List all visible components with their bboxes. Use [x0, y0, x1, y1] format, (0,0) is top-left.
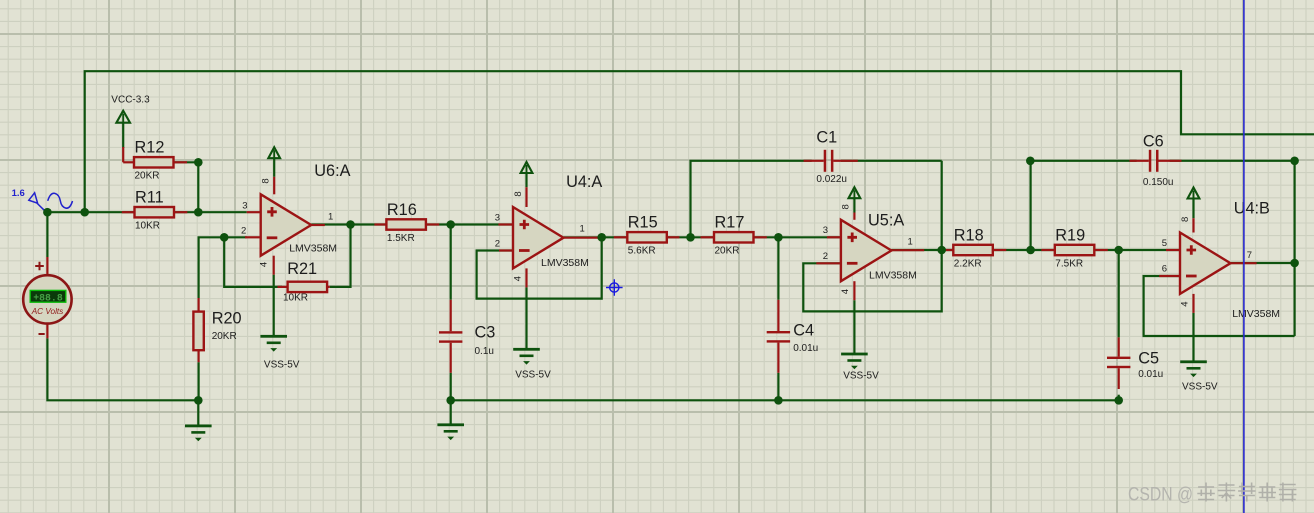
- svg-text:R18: R18: [954, 226, 984, 244]
- svg-text:5.6KR: 5.6KR: [628, 246, 656, 257]
- junction node U5 out: [937, 246, 946, 255]
- wire U5 right riser: [941, 161, 943, 250]
- power VSS-5V U4A pin4: [513, 287, 551, 380]
- wire C4 top: [777, 237, 779, 299]
- resistor R20: [193, 298, 241, 400]
- wire source row: [47, 211, 246, 213]
- op-amp U4:B: [1159, 199, 1280, 320]
- wire C6 row: [1030, 160, 1136, 162]
- svg-text:8: 8: [513, 191, 524, 196]
- sheet border line: [1243, 0, 1245, 513]
- svg-text:4: 4: [512, 276, 523, 281]
- junction node C6 left: [1026, 157, 1035, 166]
- junction node U4A out: [597, 233, 606, 242]
- svg-text:AC Volts: AC Volts: [31, 307, 64, 316]
- power VSS-5V U6 pin4: [260, 275, 299, 371]
- wire bottom rail: [451, 399, 1119, 401]
- junction node C5 bottom: [1114, 396, 1123, 405]
- svg-text:1: 1: [908, 237, 913, 248]
- junction node rail riser: [80, 208, 89, 217]
- svg-text:1: 1: [580, 224, 585, 235]
- wire R21 to out riser: [330, 225, 351, 287]
- wire U4A feedback: [477, 237, 602, 298]
- svg-text:3: 3: [823, 225, 828, 236]
- svg-text:5: 5: [1162, 238, 1167, 249]
- svg-text:VSS-5V: VSS-5V: [515, 369, 551, 380]
- svg-text:LMV358M: LMV358M: [869, 270, 917, 282]
- junction node gnd C3: [446, 396, 455, 405]
- svg-text:C6: C6: [1143, 132, 1164, 150]
- op-amp U6:A: [241, 162, 351, 275]
- svg-text:1.5KR: 1.5KR: [387, 233, 415, 244]
- ground below R20: [185, 400, 212, 441]
- junction node R12 out: [194, 158, 203, 167]
- svg-text:7.5KR: 7.5KR: [1055, 258, 1083, 269]
- wire C1 left riser: [691, 161, 812, 238]
- svg-text:10KR: 10KR: [135, 221, 160, 232]
- wire C5 bottom: [1118, 395, 1120, 401]
- svg-text:0.01u: 0.01u: [1138, 369, 1163, 380]
- junction node gnd left: [194, 396, 203, 405]
- svg-text:VCC-3.3: VCC-3.3: [111, 94, 150, 105]
- wire source top: [46, 212, 48, 257]
- origin marker: [606, 279, 623, 296]
- svg-text:LMV358M: LMV358M: [1232, 308, 1280, 320]
- resistor R19: [1041, 226, 1108, 269]
- svg-text:U4:B: U4:B: [1234, 199, 1270, 217]
- power VCC-3.3 terminal: [111, 94, 150, 148]
- svg-text:CSDN @: CSDN @: [1128, 483, 1193, 505]
- svg-text:VSS-5V: VSS-5V: [843, 371, 879, 382]
- resistor R21: [278, 260, 330, 303]
- svg-text:C4: C4: [793, 322, 814, 340]
- svg-text:+88.8: +88.8: [33, 292, 63, 303]
- wire U6 pin2 node: [199, 237, 247, 298]
- svg-text:1.6: 1.6: [12, 188, 25, 199]
- junction node R17 out: [774, 233, 783, 242]
- wire source bottom: [47, 338, 198, 400]
- wire C4 bottom: [777, 373, 779, 401]
- svg-text:R20: R20: [212, 310, 242, 328]
- junction node R15-R17: [686, 233, 695, 242]
- svg-text:2: 2: [823, 251, 828, 262]
- svg-text:4: 4: [259, 262, 270, 267]
- wire C6 right: [1170, 160, 1295, 162]
- op-amp U5:A: [816, 204, 924, 300]
- svg-text:VSS-5V: VSS-5V: [1182, 382, 1218, 393]
- svg-text:C3: C3: [475, 323, 496, 341]
- svg-text:R19: R19: [1055, 226, 1085, 244]
- wire C5 riser: [1118, 250, 1120, 337]
- wire C3 bottom: [450, 373, 452, 401]
- svg-text:U5:A: U5:A: [868, 211, 904, 229]
- wire U6 pin2 down to R21: [224, 237, 282, 287]
- svg-text:R17: R17: [715, 214, 745, 232]
- watermark CSDN: [1128, 483, 1296, 506]
- AC voltage source V1: [23, 257, 71, 338]
- svg-text:1: 1: [328, 212, 333, 223]
- junction node U4B out: [1290, 259, 1299, 268]
- op-amp U4:A: [495, 173, 603, 287]
- power VCC U4A pin8: [521, 162, 533, 187]
- wire U6 out to R16: [311, 223, 513, 225]
- wire U5 feedback: [803, 250, 941, 311]
- capacitor C5: [1107, 337, 1163, 389]
- svg-text:2: 2: [241, 225, 246, 236]
- wire C1 right to riser: [841, 160, 942, 162]
- power VCC U4B pin8: [1188, 188, 1200, 219]
- wire U4A out row: [564, 236, 841, 238]
- junction node gnd C4: [774, 396, 783, 405]
- svg-text:U6:A: U6:A: [314, 162, 350, 180]
- wire top rail: [85, 71, 1314, 212]
- svg-text:8: 8: [261, 178, 272, 183]
- svg-text:3: 3: [495, 212, 500, 223]
- svg-text:U4:A: U4:A: [566, 173, 602, 191]
- generator annotation 1.6 sine: [12, 188, 73, 211]
- svg-text:R21: R21: [287, 260, 317, 278]
- resistor R16: [374, 201, 439, 244]
- svg-text:0.01u: 0.01u: [793, 343, 818, 354]
- wire U4B right riser: [1293, 161, 1295, 336]
- capacitor C4: [767, 300, 819, 373]
- junction node R11 out: [194, 208, 203, 217]
- svg-text:8: 8: [1180, 217, 1191, 222]
- junction node R19 out: [1114, 246, 1123, 255]
- svg-text:3: 3: [242, 200, 247, 211]
- svg-text:20KR: 20KR: [715, 246, 740, 257]
- svg-text:6: 6: [1162, 264, 1167, 275]
- junction node R16 out: [446, 220, 455, 229]
- wire R12 riser: [197, 162, 199, 212]
- wire R12 out: [174, 161, 199, 163]
- svg-text:R12: R12: [135, 139, 165, 157]
- svg-text:R15: R15: [628, 214, 658, 232]
- resistor R11: [122, 189, 188, 232]
- capacitor C1: [804, 128, 858, 185]
- wire C3 top: [450, 225, 452, 300]
- wire U5 out row: [891, 249, 1180, 251]
- junction node C6 right: [1290, 157, 1299, 166]
- ground below C3: [437, 400, 464, 440]
- svg-text:LMV358M: LMV358M: [541, 257, 589, 269]
- svg-text:2: 2: [495, 238, 500, 249]
- svg-text:0.022u: 0.022u: [816, 174, 847, 185]
- svg-text:0.1u: 0.1u: [475, 346, 494, 357]
- svg-text:C5: C5: [1138, 350, 1159, 368]
- wire U4B feedback: [1144, 276, 1295, 336]
- svg-text:7: 7: [1247, 250, 1252, 261]
- svg-text:C1: C1: [816, 128, 837, 146]
- wire C6 left riser: [1029, 161, 1031, 250]
- svg-text:4: 4: [840, 289, 851, 294]
- svg-text:VSS-5V: VSS-5V: [264, 359, 300, 370]
- junction node source-top: [43, 208, 52, 217]
- svg-text:LMV358M: LMV358M: [289, 243, 337, 255]
- svg-text:2.2KR: 2.2KR: [954, 258, 982, 269]
- capacitor C3: [439, 300, 495, 373]
- svg-text:8: 8: [841, 204, 852, 209]
- capacitor C6: [1130, 132, 1182, 188]
- power VCC U6 pin8: [268, 147, 280, 177]
- resistor R15: [614, 214, 680, 257]
- svg-text:R16: R16: [387, 201, 417, 219]
- svg-text:R11: R11: [135, 189, 164, 207]
- power VCC U5 pin8: [849, 187, 861, 212]
- resistor R18: [943, 226, 1007, 269]
- resistor R17: [701, 214, 767, 257]
- wire U4B out: [1231, 262, 1295, 264]
- svg-text:20KR: 20KR: [212, 331, 237, 342]
- svg-text:0.150u: 0.150u: [1143, 177, 1174, 188]
- junction node R18-R19: [1026, 246, 1035, 255]
- junction node U6 out: [346, 220, 355, 229]
- svg-text:20KR: 20KR: [135, 171, 160, 182]
- power VSS-5V U5 pin4: [841, 300, 879, 381]
- junction node U6 pin2: [220, 233, 229, 242]
- power VSS-5V U4B pin4: [1180, 313, 1218, 393]
- svg-text:10KR: 10KR: [283, 293, 308, 304]
- svg-text:4: 4: [1179, 301, 1190, 306]
- resistor R12: [123, 139, 187, 182]
